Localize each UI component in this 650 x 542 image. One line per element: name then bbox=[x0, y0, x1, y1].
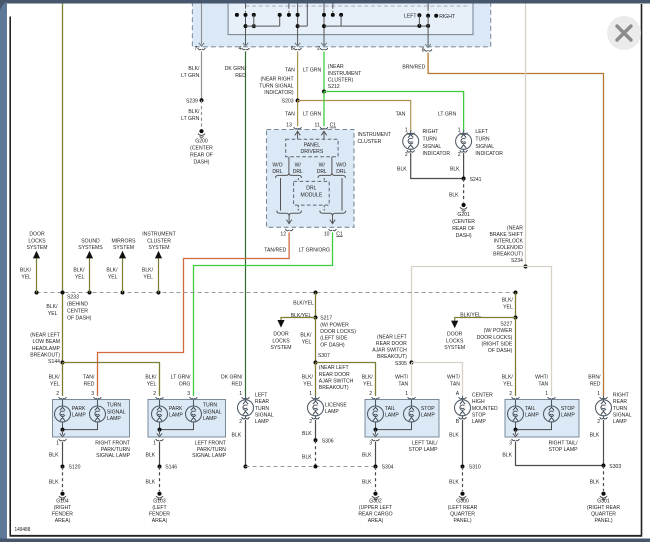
svg-text:BLK: BLK bbox=[362, 453, 372, 459]
svg-text:BLK/: BLK/ bbox=[300, 333, 311, 339]
center high mounted stop lamp bbox=[459, 397, 467, 399]
svg-text:LAMP: LAMP bbox=[169, 413, 183, 419]
svg-text:BLK/: BLK/ bbox=[302, 375, 313, 381]
svg-text:2: 2 bbox=[597, 419, 600, 425]
svg-text:BLK/YEL: BLK/YEL bbox=[460, 312, 481, 318]
svg-text:LOCKS: LOCKS bbox=[272, 338, 289, 344]
RIGHT contact bbox=[434, 14, 438, 18]
svg-text:DOOR: DOOR bbox=[29, 232, 44, 238]
svg-text:3: 3 bbox=[91, 391, 94, 397]
svg-text:TURN SIGNAL: TURN SIGNAL bbox=[259, 83, 294, 89]
svg-text:YEL: YEL bbox=[302, 340, 312, 346]
svg-text:STOP LAMP: STOP LAMP bbox=[548, 447, 577, 453]
svg-text:LT GRN: LT GRN bbox=[303, 67, 321, 73]
wire BLK dashed S241 to G201 bbox=[463, 179, 465, 203]
svg-text:SYSTEM: SYSTEM bbox=[444, 345, 465, 351]
left tail/stop lamp assembly bbox=[365, 400, 439, 438]
wire BLK/YEL S227 to right tail lamp pin 2 bbox=[515, 318, 517, 397]
svg-text:LAMP: LAMP bbox=[385, 413, 399, 419]
svg-text:149488: 149488 bbox=[15, 527, 31, 533]
svg-text:AREA): AREA) bbox=[55, 518, 71, 524]
splice S303 bbox=[602, 464, 606, 468]
svg-text:DRL: DRL bbox=[293, 169, 304, 175]
svg-text:LT GRN: LT GRN bbox=[303, 111, 321, 117]
svg-text:2: 2 bbox=[509, 391, 512, 397]
splice S304 bbox=[374, 465, 378, 469]
svg-text:2: 2 bbox=[309, 419, 312, 425]
long contact rail to LEFT/RIGHT contacts bbox=[324, 25, 428, 27]
svg-text:SIGNAL LAMP: SIGNAL LAMP bbox=[192, 453, 226, 459]
wire WHT/TAN S234 right branch to right tail/stop lamp pin 1 bbox=[526, 267, 552, 397]
svg-text:QUARTER: QUARTER bbox=[591, 512, 616, 518]
svg-text:SYSTEM: SYSTEM bbox=[271, 345, 292, 351]
svg-text:CLUSTER): CLUSTER) bbox=[328, 77, 354, 83]
svg-text:BLK/: BLK/ bbox=[188, 66, 199, 72]
svg-text:LOW BEAM: LOW BEAM bbox=[33, 339, 61, 345]
svg-text:(NEAR LEFT: (NEAR LEFT bbox=[30, 333, 60, 339]
svg-text:G300: G300 bbox=[456, 499, 468, 505]
svg-text:MOUNTED: MOUNTED bbox=[472, 406, 498, 412]
svg-text:S234: S234 bbox=[511, 258, 524, 264]
wire BLK right tail/stop lamp pin3 to S303 bbox=[516, 442, 604, 466]
wire BLK dashed S304 to G302 bbox=[375, 467, 377, 492]
ground G200 bbox=[198, 129, 205, 137]
wire DK GRN/RED from pin 4 down to left rear turn signal lamp pin 1 bbox=[245, 51, 247, 396]
svg-text:B: B bbox=[456, 419, 460, 425]
svg-text:8: 8 bbox=[422, 48, 425, 54]
branch arrow to instrument cluster system bbox=[158, 259, 160, 293]
svg-text:SIGNAL: SIGNAL bbox=[203, 409, 222, 415]
svg-text:BRAKE SHIFT: BRAKE SHIFT bbox=[489, 232, 523, 238]
svg-text:S144: S144 bbox=[48, 359, 61, 365]
svg-text:OF DASH): OF DASH) bbox=[67, 315, 91, 321]
wire BLK dashed S306 to ground bus bbox=[315, 440, 317, 466]
wire BLK/YEL bus drop to S217 bbox=[315, 293, 317, 318]
svg-text:YEL: YEL bbox=[50, 382, 60, 388]
ground G302 bbox=[372, 492, 379, 500]
svg-text:BLK: BLK bbox=[449, 433, 459, 439]
svg-text:BLK: BLK bbox=[49, 480, 59, 486]
svg-text:BLK: BLK bbox=[302, 431, 312, 437]
svg-text:(W/ POWER: (W/ POWER bbox=[320, 323, 349, 329]
svg-text:TURN: TURN bbox=[475, 137, 489, 143]
svg-text:S305: S305 bbox=[395, 361, 407, 367]
svg-text:RED: RED bbox=[84, 382, 95, 388]
svg-text:DASH): DASH) bbox=[456, 233, 472, 239]
svg-text:2: 2 bbox=[153, 391, 156, 397]
svg-text:LOCKS: LOCKS bbox=[446, 338, 463, 344]
svg-text:(NEAR LEFT: (NEAR LEFT bbox=[319, 365, 349, 371]
svg-text:RIGHT TAIL/: RIGHT TAIL/ bbox=[549, 441, 578, 447]
splice S241 bbox=[462, 177, 466, 181]
svg-text:RIGHT FRONT: RIGHT FRONT bbox=[95, 441, 130, 447]
svg-text:DRL: DRL bbox=[317, 169, 328, 175]
svg-text:YEL: YEL bbox=[147, 382, 157, 388]
wire TAN from pin 6 to S203 bbox=[297, 51, 299, 100]
splice S233 bus dashed bbox=[37, 292, 516, 294]
svg-text:SOLENOID: SOLENOID bbox=[497, 245, 523, 251]
svg-text:1: 1 bbox=[545, 391, 548, 397]
pin6 contact chain bbox=[288, 0, 290, 7]
wire BLK/LT GRN dashed S239 to G200 bbox=[201, 100, 203, 128]
svg-text:BLK/: BLK/ bbox=[362, 375, 373, 381]
svg-text:TAN: TAN bbox=[285, 67, 295, 73]
right front park/turn signal lamp assembly bbox=[53, 400, 130, 438]
svg-text:SIGNAL LAMP: SIGNAL LAMP bbox=[96, 453, 130, 459]
svg-text:G104: G104 bbox=[56, 499, 69, 505]
svg-text:INSTRUMENT: INSTRUMENT bbox=[142, 232, 176, 238]
svg-text:DRL: DRL bbox=[336, 169, 347, 175]
svg-text:BLK/: BLK/ bbox=[46, 304, 57, 310]
svg-text:YEL: YEL bbox=[363, 382, 373, 388]
ground bus dashed to S304 bbox=[246, 466, 376, 468]
svg-text:TURN: TURN bbox=[613, 406, 627, 412]
svg-text:INDICATOR): INDICATOR) bbox=[264, 90, 293, 96]
svg-text:LT GRN: LT GRN bbox=[438, 111, 456, 117]
wire BLK license lamp pin2 to S306 bbox=[315, 420, 317, 441]
wire BLK/YEL S144 branch to left front park lamp pin 2 bbox=[63, 363, 160, 397]
svg-text:W/O: W/O bbox=[336, 162, 347, 168]
wire BLK/YEL S307 branch to left tail lamp pin 2 bbox=[316, 363, 376, 397]
svg-text:BLK: BLK bbox=[590, 480, 600, 486]
svg-text:C1: C1 bbox=[336, 231, 343, 237]
svg-text:S303: S303 bbox=[609, 464, 621, 470]
svg-text:INDICATOR: INDICATOR bbox=[423, 151, 451, 157]
close button bbox=[607, 16, 641, 50]
wire TAN S203 to instrument cluster pin 13 bbox=[297, 101, 299, 127]
pin8 contact chain (hazard) bbox=[427, 0, 429, 9]
svg-text:7: 7 bbox=[194, 46, 197, 52]
svg-text:S203: S203 bbox=[282, 99, 294, 105]
panel drivers output wires to braces bbox=[288, 157, 290, 173]
wire LT GRN/ORG from cluster pin 10 to left front turn signal lamp pin 3 bbox=[194, 232, 333, 396]
svg-text:PANEL): PANEL) bbox=[453, 518, 471, 524]
svg-text:LICENSE: LICENSE bbox=[325, 402, 347, 408]
svg-text:DOOR: DOOR bbox=[273, 332, 288, 338]
svg-text:3: 3 bbox=[369, 440, 372, 446]
wire BLK left front lamp pin1 to S146 bbox=[159, 442, 161, 467]
svg-text:INDICATOR: INDICATOR bbox=[475, 151, 503, 157]
svg-text:6: 6 bbox=[291, 46, 294, 52]
ground G103 bbox=[156, 492, 163, 500]
svg-text:BLK: BLK bbox=[449, 192, 459, 198]
multi-function / turn-hazard switch (top, cut off) outer dashed box bbox=[192, 0, 490, 47]
svg-text:STOP: STOP bbox=[561, 406, 575, 412]
svg-text:CENTER: CENTER bbox=[472, 393, 493, 399]
svg-text:10: 10 bbox=[324, 231, 330, 237]
svg-text:BLK: BLK bbox=[450, 167, 460, 173]
svg-text:LAMP: LAMP bbox=[107, 416, 121, 422]
svg-text:BRN/RED: BRN/RED bbox=[402, 65, 425, 71]
wire LT GRN from pin 2 to S212 bbox=[323, 51, 325, 91]
svg-text:RED: RED bbox=[235, 73, 246, 79]
svg-text:LAMP: LAMP bbox=[561, 413, 575, 419]
svg-text:LT GRN: LT GRN bbox=[181, 116, 199, 122]
svg-text:SIGNAL: SIGNAL bbox=[475, 144, 494, 150]
svg-text:LEFT: LEFT bbox=[255, 393, 268, 399]
svg-text:LOCKS: LOCKS bbox=[28, 238, 45, 244]
svg-text:BLK/YEL: BLK/YEL bbox=[293, 301, 314, 307]
svg-text:MIRRORS: MIRRORS bbox=[111, 238, 135, 244]
svg-text:DOOR LOCKS): DOOR LOCKS) bbox=[477, 335, 513, 341]
svg-text:PANEL): PANEL) bbox=[594, 518, 612, 524]
wire BLK/YEL main feed from top to S233 bus and S144 bbox=[62, 4, 64, 363]
svg-text:(NEAR RIGHT: (NEAR RIGHT bbox=[260, 77, 294, 83]
svg-text:SIGNAL: SIGNAL bbox=[613, 412, 632, 418]
svg-text:S212: S212 bbox=[328, 84, 340, 90]
wire LT GRN S212 to instrument cluster pin 11 bbox=[323, 92, 325, 127]
wire BLK dashed S310 to G300 bbox=[462, 467, 464, 492]
svg-text:CLUSTER: CLUSTER bbox=[147, 238, 171, 244]
svg-text:G302: G302 bbox=[369, 499, 381, 505]
svg-text:YEL: YEL bbox=[108, 275, 118, 281]
svg-text:LEFT: LEFT bbox=[404, 14, 417, 20]
contact link to upper riser bbox=[298, 25, 308, 27]
svg-text:DRL: DRL bbox=[306, 186, 317, 192]
svg-text:LEFT TAIL/: LEFT TAIL/ bbox=[412, 441, 438, 447]
left front park/turn signal lamp assembly bbox=[148, 400, 226, 438]
svg-text:INSTRUMENT: INSTRUMENT bbox=[328, 71, 362, 77]
svg-text:S241: S241 bbox=[470, 177, 482, 183]
branch arrow to sound systems bbox=[89, 259, 91, 293]
switch inner dashed boundary bbox=[246, 5, 471, 7]
svg-text:LAMP: LAMP bbox=[525, 413, 539, 419]
svg-text:12: 12 bbox=[280, 231, 286, 237]
right tail/stop lamp assembly bbox=[505, 400, 579, 438]
svg-text:HIGH: HIGH bbox=[472, 399, 485, 405]
svg-text:TAIL: TAIL bbox=[525, 406, 536, 412]
svg-text:WHT/: WHT/ bbox=[395, 375, 408, 381]
svg-text:AREA): AREA) bbox=[368, 518, 384, 524]
svg-text:BREAKOUT): BREAKOUT) bbox=[493, 252, 523, 258]
svg-text:WHT/: WHT/ bbox=[447, 375, 460, 381]
svg-text:YEL: YEL bbox=[48, 311, 58, 317]
svg-text:HEADLAMP: HEADLAMP bbox=[32, 346, 60, 352]
svg-text:LAMP: LAMP bbox=[72, 413, 86, 419]
svg-text:G301: G301 bbox=[597, 499, 609, 505]
svg-text:YEL: YEL bbox=[503, 382, 513, 388]
svg-text:DK GRN/: DK GRN/ bbox=[225, 66, 247, 72]
svg-text:BLK/: BLK/ bbox=[188, 109, 199, 115]
svg-text:3: 3 bbox=[509, 440, 512, 446]
svg-text:11: 11 bbox=[314, 123, 319, 129]
ground G201 bbox=[460, 203, 467, 211]
svg-text:LAMP: LAMP bbox=[325, 409, 339, 415]
svg-text:BLK/: BLK/ bbox=[49, 375, 60, 381]
svg-text:LAMP: LAMP bbox=[613, 419, 627, 425]
svg-text:S233: S233 bbox=[67, 295, 79, 301]
svg-text:BLK/: BLK/ bbox=[142, 268, 153, 274]
svg-text:FENDER: FENDER bbox=[52, 512, 73, 518]
svg-text:(CENTER: (CENTER bbox=[190, 146, 213, 152]
pin4 contact chain bbox=[245, 0, 247, 7]
svg-text:(NEAR LEFT: (NEAR LEFT bbox=[377, 334, 407, 340]
svg-text:YEL: YEL bbox=[503, 305, 513, 311]
svg-text:RIGHT: RIGHT bbox=[439, 14, 455, 20]
svg-text:AREA): AREA) bbox=[152, 518, 168, 524]
svg-text:LT GRN/ORG: LT GRN/ORG bbox=[299, 248, 331, 254]
svg-text:S310: S310 bbox=[469, 464, 481, 470]
wire LT GRN S212 branch to left turn signal indicator bbox=[324, 92, 464, 132]
instrument cluster dashed box bbox=[267, 130, 355, 228]
svg-text:BLK: BLK bbox=[590, 433, 600, 439]
wire BLK right front lamp pin1 to S120 bbox=[62, 442, 64, 467]
splice S227 w/ power door locks right side of dash bbox=[514, 316, 518, 320]
svg-text:13: 13 bbox=[286, 123, 292, 129]
W/O DRL bypass wire right bbox=[341, 178, 343, 211]
svg-text:CLUSTER: CLUSTER bbox=[358, 139, 382, 145]
wire BLK left tail/stop lamp pin3 to S304 bbox=[375, 442, 377, 467]
wire TAN S203 branch to right turn signal indicator bbox=[298, 101, 411, 132]
svg-text:TURN: TURN bbox=[203, 403, 217, 409]
svg-text:DASH): DASH) bbox=[194, 159, 210, 165]
svg-text:S217: S217 bbox=[320, 316, 332, 322]
svg-text:(RIGHT SIDE: (RIGHT SIDE bbox=[482, 341, 513, 347]
svg-text:AJAR SWITCH: AJAR SWITCH bbox=[372, 348, 407, 354]
selection brace upper left bbox=[276, 173, 302, 178]
svg-text:TAN: TAN bbox=[285, 111, 295, 117]
svg-text:SYSTEM: SYSTEM bbox=[27, 245, 48, 251]
svg-text:RIGHT: RIGHT bbox=[613, 393, 629, 399]
svg-text:W/: W/ bbox=[295, 162, 302, 168]
svg-text:(UPPER LEFT: (UPPER LEFT bbox=[359, 505, 393, 511]
svg-text:S227: S227 bbox=[500, 322, 512, 328]
svg-text:S307: S307 bbox=[318, 353, 330, 359]
svg-text:REAR OF: REAR OF bbox=[452, 226, 475, 232]
wire BLK/YEL S227 branch arrow to door locks system bbox=[455, 318, 516, 321]
svg-text:(LEFT REAR: (LEFT REAR bbox=[448, 505, 478, 511]
svg-text:LT GRN: LT GRN bbox=[181, 73, 199, 79]
svg-text:REAR CARGO: REAR CARGO bbox=[358, 512, 393, 518]
wire BLK dashed S146 to G103 bbox=[159, 467, 161, 492]
svg-text:TAN: TAN bbox=[538, 382, 548, 388]
wire BLK/YEL S217 to S307 bbox=[315, 318, 317, 363]
svg-text:2: 2 bbox=[405, 152, 408, 158]
svg-text:G103: G103 bbox=[153, 499, 165, 505]
svg-text:REAR: REAR bbox=[255, 399, 269, 405]
svg-text:(LEFT SIDE: (LEFT SIDE bbox=[320, 336, 348, 342]
svg-text:1: 1 bbox=[56, 440, 59, 446]
svg-text:BLK/: BLK/ bbox=[502, 298, 513, 304]
svg-text:SIGNAL: SIGNAL bbox=[107, 409, 126, 415]
svg-text:BRN/: BRN/ bbox=[588, 375, 601, 381]
svg-text:S304: S304 bbox=[382, 464, 395, 470]
svg-text:PANEL: PANEL bbox=[304, 142, 321, 148]
cluster output wire to pin 12 bbox=[286, 216, 291, 223]
svg-text:RED: RED bbox=[590, 382, 601, 388]
svg-text:C1: C1 bbox=[330, 123, 337, 129]
branch arrow to mirrors system bbox=[122, 259, 124, 293]
svg-text:ORG: ORG bbox=[179, 382, 191, 388]
svg-text:2: 2 bbox=[317, 46, 320, 52]
branch arrow to door locks system bbox=[36, 259, 38, 293]
switch pin 7 wire inside box bbox=[201, 0, 203, 45]
svg-text:1: 1 bbox=[153, 440, 156, 446]
svg-text:(RIGHT: (RIGHT bbox=[54, 505, 72, 511]
svg-text:G200: G200 bbox=[195, 139, 207, 145]
svg-text:(CENTER: (CENTER bbox=[452, 219, 475, 225]
svg-text:BLK: BLK bbox=[502, 453, 512, 459]
wire WHT/TAN S234 left branch to S305 bbox=[412, 267, 526, 363]
wire BLK right indicator to S241 bbox=[411, 153, 464, 179]
svg-text:TAN: TAN bbox=[450, 382, 460, 388]
svg-text:LAMP: LAMP bbox=[421, 413, 435, 419]
svg-text:DOOR LOCKS): DOOR LOCKS) bbox=[320, 329, 356, 335]
ground G104 bbox=[59, 492, 66, 500]
W/O DRL bypass wire left bbox=[280, 178, 282, 211]
svg-text:DRL: DRL bbox=[272, 169, 283, 175]
wire WHT/TAN S305 to left tail/stop lamp pin 1 bbox=[411, 363, 413, 397]
wire WHT/TAN from top to S234 bbox=[525, 4, 527, 267]
DRL module dashed box bbox=[294, 181, 330, 205]
license lamp bbox=[312, 397, 320, 399]
svg-text:CENTER: CENTER bbox=[67, 309, 88, 315]
wire BLK right rear turn lamp pin2 to S303 bbox=[603, 420, 605, 466]
svg-text:LAMP: LAMP bbox=[255, 419, 269, 425]
cluster output wire to pin 10 bbox=[330, 216, 335, 223]
svg-text:REAR: REAR bbox=[613, 399, 627, 405]
wire BLK left indicator to S241 bbox=[463, 153, 465, 179]
svg-text:RED: RED bbox=[232, 382, 243, 388]
svg-text:TURN: TURN bbox=[423, 137, 437, 143]
svg-text:BLK/: BLK/ bbox=[145, 375, 156, 381]
svg-text:DRIVERS: DRIVERS bbox=[301, 149, 324, 155]
splice S239 bbox=[200, 98, 204, 102]
svg-text:BLK: BLK bbox=[397, 167, 407, 173]
svg-text:SIGNAL: SIGNAL bbox=[255, 412, 274, 418]
svg-text:PARK: PARK bbox=[169, 406, 183, 412]
svg-text:DK GRN/: DK GRN/ bbox=[221, 375, 243, 381]
W/ DRL wire left into DRL module bbox=[297, 178, 299, 181]
svg-text:(LEFT: (LEFT bbox=[152, 505, 167, 511]
svg-text:WHT/: WHT/ bbox=[535, 375, 548, 381]
svg-text:FENDER: FENDER bbox=[149, 512, 170, 518]
svg-text:2: 2 bbox=[239, 419, 242, 425]
svg-text:3: 3 bbox=[187, 391, 190, 397]
wire BLK dashed S120 to G104 bbox=[62, 467, 64, 492]
svg-text:TAN: TAN bbox=[396, 111, 406, 117]
svg-text:(BEHIND: (BEHIND bbox=[67, 302, 88, 308]
svg-text:YEL: YEL bbox=[303, 382, 313, 388]
svg-text:YEL: YEL bbox=[75, 275, 85, 281]
svg-text:INTERLOCK: INTERLOCK bbox=[494, 239, 523, 245]
svg-text:(RIGHT REAR: (RIGHT REAR bbox=[587, 505, 620, 511]
svg-text:1: 1 bbox=[309, 391, 312, 397]
svg-text:BREAKOUT): BREAKOUT) bbox=[30, 352, 60, 358]
svg-text:S306: S306 bbox=[322, 439, 334, 445]
selection brace upper right bbox=[318, 173, 346, 178]
svg-text:1: 1 bbox=[597, 391, 600, 397]
svg-text:LT GRN/: LT GRN/ bbox=[171, 375, 191, 381]
svg-text:S146: S146 bbox=[165, 464, 177, 470]
svg-text:W/O: W/O bbox=[272, 162, 283, 168]
svg-text:DOOR: DOOR bbox=[447, 332, 462, 338]
wire BRN/RED from pin 8 to right rear turn signal lamp pin 1 bbox=[428, 53, 603, 396]
svg-text:PARK/TURN: PARK/TURN bbox=[197, 447, 226, 453]
svg-text:SYSTEMS: SYSTEMS bbox=[78, 245, 102, 251]
splice S120 bbox=[61, 465, 65, 469]
selection brace lower right bbox=[320, 211, 346, 217]
svg-text:SYSTEM: SYSTEM bbox=[149, 245, 170, 251]
svg-text:BLK: BLK bbox=[232, 433, 242, 439]
right rear turn signal lamp bbox=[600, 397, 608, 399]
cluster pin11 arrow into panel drivers bbox=[321, 131, 326, 139]
svg-text:1: 1 bbox=[239, 391, 242, 397]
svg-text:LEFT: LEFT bbox=[475, 129, 488, 135]
svg-text:BLK/: BLK/ bbox=[106, 268, 117, 274]
svg-text:1: 1 bbox=[405, 391, 408, 397]
wire BLK/YEL S307 to license lamp pin 1 bbox=[315, 363, 317, 397]
